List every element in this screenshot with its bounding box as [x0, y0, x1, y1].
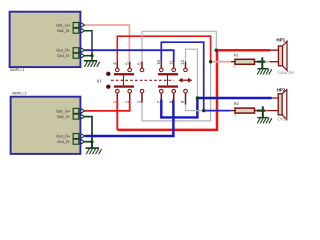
- node HP1 junction: [215, 49, 218, 52]
- svg-text:R2: R2: [234, 101, 240, 106]
- wire HP1 net bottom run (thick red): [117, 50, 217, 130]
- wire HP2 net to speaker (thick blue): [197, 97, 271, 99]
- svg-text:Droit: Droit: [277, 117, 288, 123]
- wire AMPLI.2 Out_D+ to relay pin 8 (thick blue): [85, 100, 174, 136]
- resistor R1: [231, 59, 257, 64]
- wire relay pin 10 to R2 node (blue): [161, 42, 203, 110]
- junction dot box1 ground: [90, 54, 93, 57]
- svg-text:10: 10: [156, 59, 161, 64]
- wire HP1 net to speaker (thick red): [216, 49, 270, 52]
- svg-text:Out_D+: Out_D+: [56, 48, 71, 53]
- svg-text:HP2: HP2: [277, 87, 286, 92]
- svg-text:K1: K1: [97, 79, 103, 84]
- wire R1 to HP1- (green): [257, 61, 265, 63]
- svg-text:Out_D-: Out_D-: [57, 53, 71, 58]
- ground tap HP1: [257, 57, 272, 74]
- svg-text:12: 12: [180, 59, 185, 64]
- wire R2 node to R2 (blue): [204, 110, 231, 112]
- wire AMPLI.2 Out_G- to ground: [85, 117, 92, 142]
- amplifier AMPLI.1: [10, 12, 81, 67]
- node R2 junction: [202, 109, 205, 112]
- svg-text:9: 9: [180, 100, 185, 103]
- svg-text:11: 11: [168, 60, 173, 65]
- amplifier AMPLI.2: [11, 97, 81, 154]
- mechanical link dashed line: [111, 79, 174, 81]
- ground symbol box1: [84, 56, 100, 67]
- pin Out_G+: [56, 22, 85, 27]
- relay actuation double arrow: [178, 78, 192, 83]
- relay contact K1 top-left (pins 4,5,6): [114, 62, 144, 86]
- wire R2 to HP2- (green): [257, 109, 265, 111]
- wire relay pin 3 to R1 node (grey): [142, 62, 211, 121]
- pin Out_G-: [57, 28, 85, 33]
- wire to HP2 bottom (dark red): [265, 110, 270, 112]
- pin Out_G+: [56, 108, 85, 113]
- svg-text:Gauche: Gauche: [277, 70, 294, 76]
- relay contact K1 bottom-left (pins 1,2,3): [114, 85, 144, 102]
- svg-text:3: 3: [137, 100, 142, 103]
- svg-text:Out_D+: Out_D+: [56, 133, 71, 138]
- wire AMPLI.1 Out_D+ to relay pin 11 (blue): [85, 50, 174, 61]
- wire AMPLI.1 Out_G+ to relay pin 5 (pink): [85, 25, 130, 62]
- wire AMPLI.1 Out_G- to ground: [85, 31, 92, 56]
- pin Out_G-: [57, 114, 85, 119]
- svg-text:3: 3: [233, 65, 235, 69]
- svg-text:AMPLI.2: AMPLI.2: [12, 92, 27, 96]
- pin Out_D-: [57, 139, 84, 144]
- pin Out_D+: [56, 48, 84, 53]
- wire AMPLI.2 Out_D- to ground: [85, 141, 92, 143]
- svg-text:R1: R1: [234, 52, 240, 57]
- resistor R2: [231, 108, 257, 113]
- pin Out_D-: [57, 53, 84, 58]
- svg-text:3: 3: [234, 114, 236, 118]
- svg-text:6: 6: [137, 62, 142, 65]
- speaker HP2: [270, 90, 287, 120]
- svg-text:Out_G+: Out_G+: [56, 22, 71, 27]
- speaker HP1: [270, 41, 287, 70]
- svg-text:2: 2: [124, 100, 129, 103]
- wire to HP1 bottom (pink): [265, 61, 270, 63]
- svg-text:5: 5: [124, 62, 129, 65]
- wire AMPLI.1 Out_D- to ground: [85, 55, 92, 57]
- wire HP2 net to relay pin 7 (thick blue): [161, 98, 197, 117]
- svg-text:4: 4: [112, 62, 117, 65]
- relay coil dot lower: [106, 85, 110, 89]
- relay contact K1 bottom-right (pins 7,8,9): [158, 85, 187, 104]
- svg-text:1: 1: [112, 100, 117, 103]
- ground symbol box2: [86, 142, 102, 154]
- relay coil dot upper: [106, 72, 110, 76]
- pin Out_D+: [56, 133, 84, 138]
- svg-text:Out_G-: Out_G-: [57, 114, 71, 119]
- svg-text:Out_G+: Out_G+: [56, 108, 71, 113]
- wire AMPLI.2 Out_G+ to relay pin 2 (red): [85, 100, 130, 111]
- wire relay pin 1 riser (red): [116, 100, 118, 130]
- wire relay pin 12 to HP2 node (grey): [186, 49, 198, 98]
- node HP2 junction: [196, 96, 199, 99]
- wire relay pin 4 to R1 node (red): [117, 36, 210, 62]
- relay contact K1 top-right (pins 10,11,12): [158, 62, 187, 86]
- svg-text:Out_G-: Out_G-: [57, 28, 71, 33]
- junction dot box2 ground: [90, 140, 93, 143]
- wire relay pin 6 to HP1 node (grey): [142, 31, 216, 61]
- ground tap HP2: [257, 106, 272, 123]
- wire relay pin 9 to R2 node (grey): [186, 105, 204, 111]
- svg-text:AMPLI.1: AMPLI.1: [10, 68, 25, 72]
- svg-text:Out_D-: Out_D-: [57, 139, 71, 144]
- svg-text:HP1: HP1: [276, 38, 285, 43]
- wire R1 node to R1 (pink): [211, 61, 231, 63]
- node R1 junction: [209, 60, 212, 63]
